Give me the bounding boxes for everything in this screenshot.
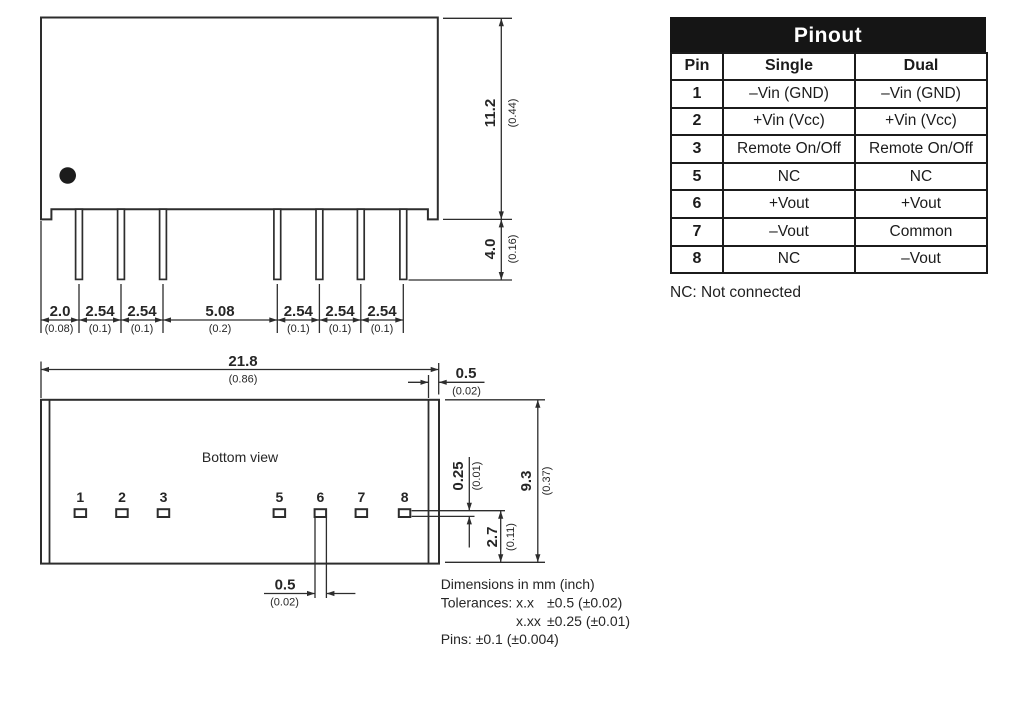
svg-text:2.7: 2.7	[484, 527, 501, 548]
pin8 reference lines	[412, 511, 505, 517]
svg-text:2.0: 2.0	[50, 303, 71, 320]
svg-text:Tolerances: x.x: Tolerances: x.x	[441, 595, 534, 611]
11.2 dimension line	[500, 18, 502, 280]
NC note	[670, 284, 801, 302]
side-view pins	[76, 209, 407, 279]
svg-text:8: 8	[401, 489, 409, 505]
svg-text:(0.1): (0.1)	[89, 323, 112, 335]
svg-text:7: 7	[358, 489, 366, 505]
9.3 dimension line	[537, 400, 539, 563]
svg-text:(0.01): (0.01)	[471, 462, 483, 491]
bottom view pin pads	[75, 509, 411, 517]
svg-text:0.25: 0.25	[450, 461, 467, 490]
svg-text:(0.11): (0.11)	[505, 523, 517, 551]
0.5 pin width dimension	[264, 593, 355, 595]
0.25 dimension	[468, 457, 470, 548]
svg-text:4.0: 4.0	[482, 239, 499, 260]
svg-text:2.54: 2.54	[367, 303, 397, 320]
right-side extension lines (side view)	[409, 18, 513, 280]
2.7 dimension	[500, 511, 502, 563]
notes	[441, 576, 630, 647]
9.3 extension lines	[445, 400, 545, 563]
svg-text:(0.08): (0.08)	[45, 323, 74, 335]
svg-text:(0.37): (0.37)	[541, 467, 553, 496]
svg-text:2.54: 2.54	[284, 303, 314, 320]
svg-text:11.2: 11.2	[482, 99, 499, 127]
pinout table	[670, 17, 986, 274]
svg-text:2.54: 2.54	[127, 303, 157, 320]
svg-text:2.54: 2.54	[325, 303, 355, 320]
svg-text:(0.44): (0.44)	[507, 99, 519, 128]
svg-text:(0.1): (0.1)	[131, 323, 154, 335]
0.5 wall dimension (top right)	[408, 375, 485, 398]
svg-text:5: 5	[276, 489, 284, 505]
svg-text:21.8: 21.8	[228, 353, 257, 370]
pin6 width extension lines	[315, 518, 326, 598]
svg-text:3: 3	[160, 489, 168, 505]
21.8 extension lines	[41, 362, 439, 399]
pitch mm labels	[50, 303, 398, 320]
svg-text:0.5: 0.5	[275, 577, 296, 594]
svg-text:9.3: 9.3	[518, 471, 535, 492]
bottom view pin numbers	[76, 489, 408, 505]
svg-text:(0.2): (0.2)	[209, 323, 232, 335]
svg-text:(0.16): (0.16)	[507, 235, 519, 264]
package side-view outline	[41, 18, 438, 220]
bottom view inner wall lines	[50, 400, 429, 564]
bottom view outline	[41, 400, 439, 564]
svg-text:5.08: 5.08	[205, 303, 234, 320]
svg-text:x.xx: x.xx	[516, 613, 541, 629]
pitch dimension arrows	[41, 319, 403, 321]
svg-text:0.5: 0.5	[456, 365, 477, 382]
svg-text:Pins: ±0.1 (±0.004): Pins: ±0.1 (±0.004)	[441, 631, 559, 647]
svg-text:6: 6	[317, 489, 325, 505]
svg-text:±0.25 (±0.01): ±0.25 (±0.01)	[547, 613, 630, 629]
svg-text:Dimensions in mm (inch): Dimensions in mm (inch)	[441, 576, 595, 592]
svg-text:2.54: 2.54	[85, 303, 115, 320]
svg-text:Bottom view: Bottom view	[202, 449, 279, 465]
svg-text:1: 1	[76, 489, 84, 505]
svg-text:(0.02): (0.02)	[270, 597, 299, 609]
svg-text:(0.1): (0.1)	[287, 323, 310, 335]
svg-text:(0.02): (0.02)	[452, 386, 481, 398]
svg-text:(0.1): (0.1)	[329, 323, 352, 335]
svg-text:2: 2	[118, 489, 126, 505]
pin-1 marker dot	[59, 167, 76, 184]
svg-text:(0.1): (0.1)	[371, 323, 394, 335]
21.8 dimension line	[41, 369, 439, 371]
svg-text:±0.5 (±0.02): ±0.5 (±0.02)	[547, 595, 622, 611]
svg-text:(0.86): (0.86)	[229, 374, 258, 386]
extension lines below side view	[41, 221, 403, 333]
pitch inch labels	[45, 323, 394, 335]
